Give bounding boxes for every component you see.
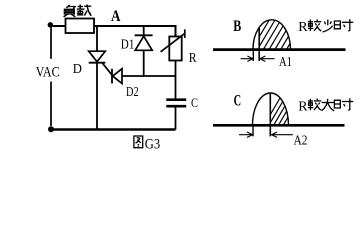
diode D2 cathode bar xyxy=(111,69,113,84)
svg-text:R: R xyxy=(298,20,308,35)
svg-text:D1: D1 xyxy=(121,37,135,52)
label R较少时 (glyph 时) xyxy=(334,19,353,31)
capacitor C bottom plate xyxy=(166,105,186,108)
tick C left xyxy=(252,126,254,137)
label 负载 (glyph 载) xyxy=(77,5,91,16)
hatch B xyxy=(250,20,304,52)
wire thyristor branch top xyxy=(96,26,98,51)
hatch C xyxy=(262,94,306,128)
dimension line left C with right-pointing arrow xyxy=(239,132,253,137)
waveform hump B outline xyxy=(253,20,291,50)
wire top from load box to right corner xyxy=(94,25,176,27)
capacitor C top plate xyxy=(166,98,186,101)
wire top from dot to load box xyxy=(50,25,65,27)
svg-text:B: B xyxy=(233,18,241,35)
firing line B xyxy=(258,28,260,61)
waveform hump C outline xyxy=(253,93,289,125)
diode D1 triangle xyxy=(135,36,152,50)
svg-text:A2: A2 xyxy=(294,132,308,147)
wire gate diagonal xyxy=(103,63,112,75)
wire R branch corner down xyxy=(175,25,177,37)
firing line C xyxy=(269,93,271,136)
dimension line right B with left-pointing arrow xyxy=(260,56,275,61)
thyristor D triangle xyxy=(89,51,106,61)
svg-text:R: R xyxy=(189,51,197,66)
potentiometer R box xyxy=(169,37,181,61)
svg-text:A1: A1 xyxy=(279,55,292,70)
diode D2 triangle xyxy=(113,69,122,84)
wire VAC lower segment xyxy=(50,82,52,127)
potentiometer R arrow xyxy=(161,34,185,52)
label 图G3 (glyph 图) xyxy=(134,136,143,148)
terminal dot bottom xyxy=(48,126,54,132)
svg-text:VAC: VAC xyxy=(36,65,60,81)
wire thyristor to bottom xyxy=(96,63,98,130)
resistor load box (负载) xyxy=(66,19,95,34)
axis C xyxy=(213,124,345,127)
label R较大时 (glyph 时) xyxy=(334,98,353,110)
svg-text:R: R xyxy=(298,99,308,114)
svg-text:C: C xyxy=(234,93,242,110)
wire VAC upper segment xyxy=(50,27,52,59)
wire diode D1 lead down xyxy=(143,50,145,76)
wire R bottom to capacitor xyxy=(175,61,177,100)
svg-text:G3: G3 xyxy=(145,137,160,153)
wire bottom xyxy=(51,128,176,130)
label 负载 (glyph 负) xyxy=(64,5,76,17)
svg-text:D2: D2 xyxy=(126,85,139,100)
axis B xyxy=(213,48,346,51)
svg-text:A: A xyxy=(111,8,121,25)
label R较少时 (glyph 少) xyxy=(323,20,333,33)
wire gate horizontal xyxy=(122,75,176,77)
wire capacitor to bottom xyxy=(175,107,177,130)
diode D1 cathode bar xyxy=(135,34,153,36)
label R较大时 (glyph 较) xyxy=(308,99,321,111)
svg-text:C: C xyxy=(191,95,198,110)
thyristor D cathode bar xyxy=(89,62,106,64)
wire diode D1 branch top xyxy=(143,26,145,35)
label R较大时 (glyph 大) xyxy=(322,99,335,111)
dimension line right C with left-pointing arrow xyxy=(272,132,293,137)
terminal dot top-left xyxy=(48,22,53,27)
label R较少时 (glyph 较) xyxy=(308,19,321,31)
dimension line left B with right-pointing arrow xyxy=(241,56,253,61)
tick B left xyxy=(252,50,254,61)
svg-text:D: D xyxy=(73,62,82,77)
